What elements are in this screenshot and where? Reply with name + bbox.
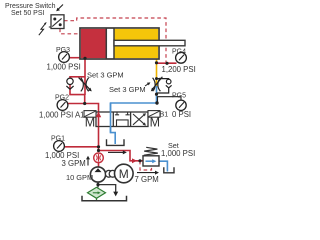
svg-text:0 PSI: 0 PSI xyxy=(172,110,191,119)
svg-text:Set 3 GPM: Set 3 GPM xyxy=(87,70,124,79)
svg-text:M: M xyxy=(85,116,95,130)
svg-text:Set 3 GPM: Set 3 GPM xyxy=(109,85,146,94)
svg-text:1,000 PSI A1: 1,000 PSI A1 xyxy=(39,111,85,120)
svg-text:1,000 PSI: 1,000 PSI xyxy=(47,62,81,71)
svg-text:B1: B1 xyxy=(160,110,169,119)
svg-text:1,000 PSI: 1,000 PSI xyxy=(161,149,195,158)
svg-text:10 GPM: 10 GPM xyxy=(66,173,93,182)
svg-text:7 GPM: 7 GPM xyxy=(135,175,159,184)
svg-text:PG1: PG1 xyxy=(51,136,65,143)
svg-text:3 GPM: 3 GPM xyxy=(62,159,86,168)
svg-text:M: M xyxy=(119,167,129,181)
svg-text:PG3: PG3 xyxy=(56,47,70,54)
svg-text:M: M xyxy=(150,116,160,130)
svg-text:1,200 PSI: 1,200 PSI xyxy=(162,65,196,74)
svg-text:PG5: PG5 xyxy=(172,93,186,100)
svg-text:PG4: PG4 xyxy=(172,49,186,56)
svg-text:Set 50 PSI: Set 50 PSI xyxy=(11,10,45,17)
svg-text:PG2: PG2 xyxy=(55,95,69,102)
